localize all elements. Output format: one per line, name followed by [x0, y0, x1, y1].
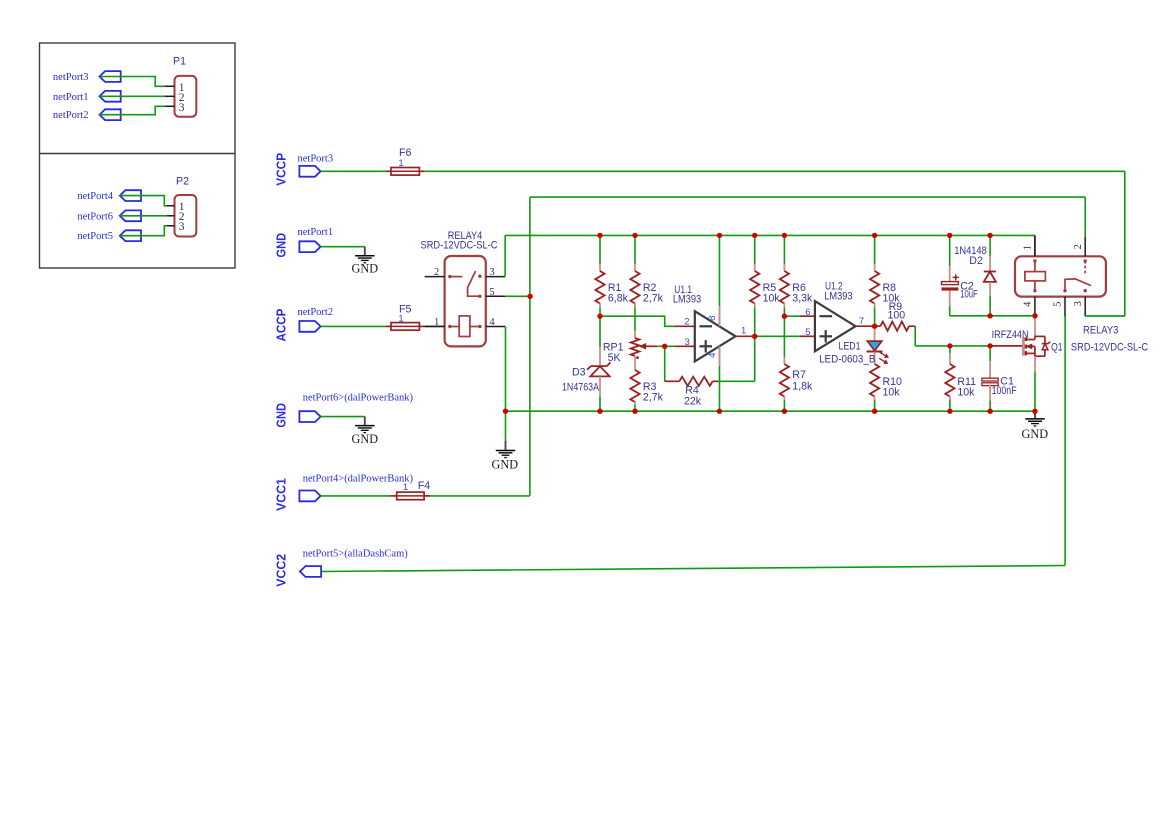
svg-text:1: 1: [1023, 245, 1034, 250]
svg-text:P1: P1: [173, 56, 186, 68]
svg-text:2,7k: 2,7k: [643, 391, 664, 403]
svg-text:1,8k: 1,8k: [792, 380, 813, 392]
svg-text:1: 1: [741, 325, 746, 336]
svg-text:5: 5: [1053, 302, 1064, 307]
svg-text:6: 6: [805, 307, 810, 318]
svg-text:ACCP: ACCP: [274, 309, 288, 342]
svg-text:D2: D2: [969, 255, 983, 267]
svg-text:LM393: LM393: [824, 291, 852, 303]
svg-text:GND: GND: [274, 233, 288, 258]
svg-text:netPort3: netPort3: [298, 154, 334, 165]
svg-text:6,8k: 6,8k: [608, 293, 629, 305]
svg-text:10uF: 10uF: [960, 289, 978, 301]
svg-text:Q1: Q1: [1051, 341, 1063, 353]
svg-text:P2: P2: [176, 176, 189, 188]
svg-text:netPort5: netPort5: [77, 231, 113, 242]
svg-text:3: 3: [179, 221, 185, 233]
svg-text:SRD-12VDC-SL-C: SRD-12VDC-SL-C: [1071, 341, 1148, 353]
svg-text:10k: 10k: [883, 387, 901, 399]
svg-text:3: 3: [685, 337, 690, 348]
svg-text:4: 4: [707, 353, 718, 358]
svg-text:LED-0603_B: LED-0603_B: [819, 354, 875, 366]
svg-text:VCC1: VCC1: [274, 478, 288, 511]
svg-text:1: 1: [398, 313, 403, 324]
svg-text:netPort3: netPort3: [53, 72, 89, 83]
svg-text:10k: 10k: [957, 387, 975, 399]
svg-text:netPort1: netPort1: [298, 227, 334, 238]
svg-text:netPort6: netPort6: [77, 211, 113, 222]
svg-text:4: 4: [489, 317, 495, 328]
svg-text:2,7k: 2,7k: [643, 293, 664, 305]
svg-text:1: 1: [403, 482, 408, 493]
svg-text:GND: GND: [274, 403, 288, 428]
svg-text:8: 8: [707, 316, 718, 321]
svg-text:2: 2: [1073, 244, 1084, 249]
svg-text:4: 4: [1023, 301, 1034, 307]
svg-text:SRD-12VDC-SL-C: SRD-12VDC-SL-C: [421, 239, 498, 251]
svg-text:5: 5: [805, 327, 810, 338]
svg-text:D3: D3: [572, 367, 586, 379]
svg-text:GND: GND: [1022, 426, 1049, 441]
svg-text:10k: 10k: [763, 293, 781, 305]
svg-text:5K: 5K: [608, 352, 621, 364]
svg-text:3: 3: [489, 267, 494, 278]
svg-text:LED1: LED1: [839, 341, 861, 353]
svg-text:1N4763A: 1N4763A: [562, 382, 600, 394]
svg-text:5: 5: [489, 287, 494, 298]
svg-text:GND: GND: [352, 431, 379, 446]
svg-text:1: 1: [434, 317, 439, 328]
svg-text:VCCP: VCCP: [274, 153, 288, 186]
svg-text:netPort1: netPort1: [53, 92, 89, 103]
svg-text:1: 1: [398, 158, 403, 169]
svg-text:netPort4: netPort4: [77, 191, 113, 202]
svg-text:VCC2: VCC2: [274, 554, 288, 587]
svg-text:netPort2: netPort2: [53, 110, 89, 121]
svg-text:netPort6>(dalPowerBank): netPort6>(dalPowerBank): [303, 393, 414, 404]
svg-text:IRFZ44N: IRFZ44N: [992, 329, 1029, 341]
svg-text:netPort5>(allaDashCam): netPort5>(allaDashCam): [303, 549, 409, 560]
svg-text:GND: GND: [492, 456, 519, 471]
svg-text:F4: F4: [418, 480, 430, 492]
svg-text:netPort4>(dalPowerBank): netPort4>(dalPowerBank): [303, 474, 414, 485]
svg-text:3,3k: 3,3k: [792, 293, 813, 305]
svg-text:LM393: LM393: [673, 294, 701, 306]
svg-text:100: 100: [887, 310, 905, 322]
svg-text:2: 2: [684, 317, 689, 328]
svg-text:2: 2: [434, 267, 439, 278]
svg-text:RELAY3: RELAY3: [1083, 324, 1118, 336]
svg-text:GND: GND: [352, 261, 379, 276]
svg-text:netPort2: netPort2: [298, 307, 334, 318]
svg-text:R7: R7: [792, 369, 806, 381]
svg-text:3: 3: [179, 102, 185, 114]
svg-text:100nF: 100nF: [992, 385, 1017, 397]
svg-text:22k: 22k: [684, 396, 702, 408]
svg-text:3: 3: [1073, 301, 1084, 306]
